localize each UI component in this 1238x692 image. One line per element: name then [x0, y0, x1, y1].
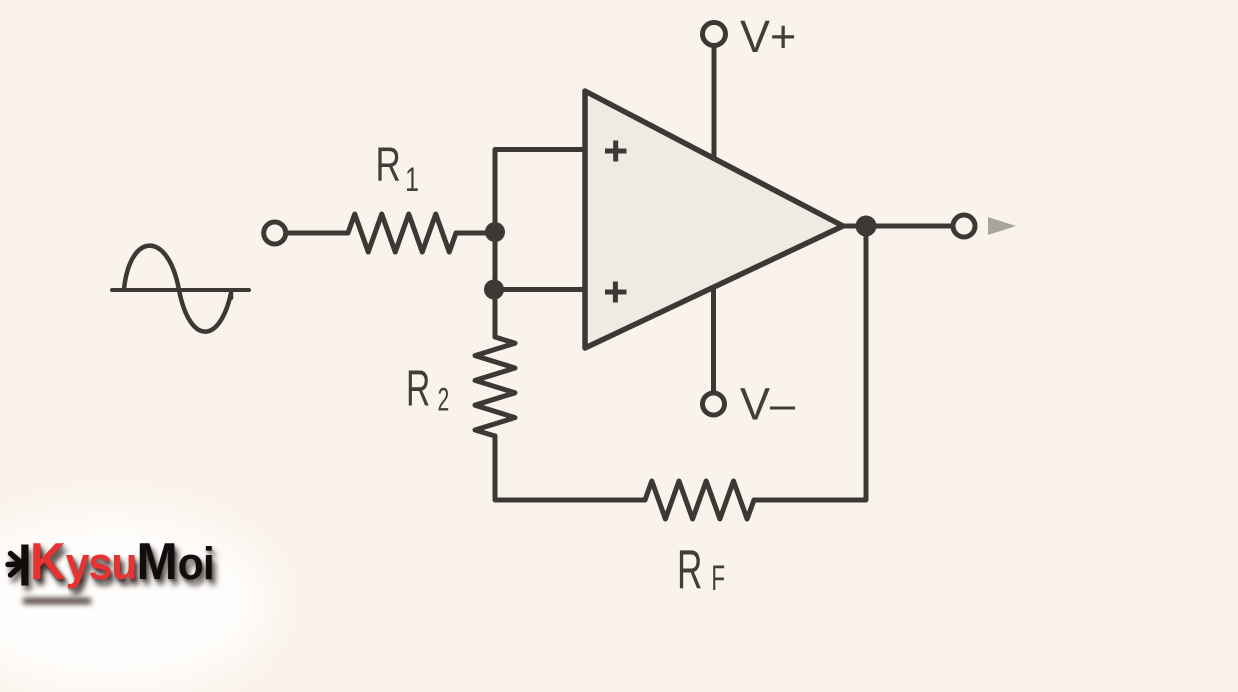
- wire: input terminal to R1: [288, 231, 348, 236]
- wire: RF to output node: [754, 226, 866, 500]
- logo star mark: [0, 535, 60, 605]
- wire: R2 to feedback rail: [495, 436, 645, 500]
- output terminal: [953, 215, 975, 237]
- wire: R1 to junction A: [456, 231, 495, 236]
- logo KysuMoi watermark: [30, 536, 214, 590]
- svg-text:R2: R2: [406, 361, 449, 418]
- node: output junction: [856, 216, 877, 237]
- power terminal V+ wire: [712, 48, 717, 159]
- svg-text:V+: V+: [740, 11, 796, 62]
- op-amp input marker (+) bottom: [605, 282, 627, 303]
- wire: junction B down to R2: [493, 290, 498, 338]
- power terminal V- wire: [711, 289, 716, 392]
- resistor RF: [645, 481, 754, 519]
- resistor R2: [475, 337, 515, 436]
- op-amp U1 body: [585, 91, 843, 348]
- svg-text:RF: RF: [677, 538, 725, 600]
- power terminal V-: [703, 393, 725, 415]
- svg-text:R1: R1: [376, 138, 419, 199]
- node B: junction at lower input: [484, 280, 504, 300]
- wire: junction A up and right to op-amp top input: [495, 150, 586, 233]
- wire: junction B to op-amp lower input: [494, 287, 586, 292]
- resistor R1: [348, 214, 456, 252]
- logo bottom shadow remnant: [23, 598, 91, 604]
- wire: junction A down to junction B: [493, 232, 498, 290]
- input terminal: [264, 222, 286, 244]
- power terminal V+: [703, 23, 726, 46]
- wire: op-amp output: [843, 224, 950, 229]
- op-amp input marker (+) top: [605, 141, 627, 162]
- node A: junction at non-inverting input: [485, 222, 505, 242]
- output arrow: [988, 217, 1016, 235]
- signal source sine wave: [112, 246, 249, 332]
- svg-text:V–: V–: [740, 379, 795, 430]
